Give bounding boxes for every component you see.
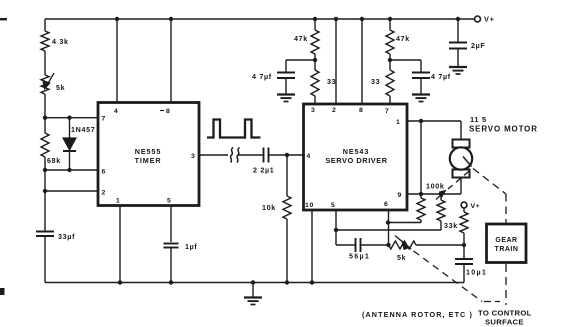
potentiometer 5k [389,236,465,263]
svg-text:47k: 47k [294,35,308,43]
wire NE543 pin1 to motor [407,121,461,140]
resistor 47k right [386,19,410,60]
svg-text:1µf: 1µf [185,243,198,251]
NE555 pin 4 label [114,108,118,115]
NE555 pin 7 label [102,116,106,123]
svg-text:NE555: NE555 [135,147,161,156]
wire NE543 pin 8 to rail [361,19,363,104]
svg-text:3: 3 [191,153,195,160]
wire cap to NE543 pin4 [269,154,304,156]
scan mark left bottom [0,288,5,295]
pulse waveform symbol [207,120,261,138]
capacitor 4.7uF right [412,73,451,95]
terminal V+ mid [461,202,480,210]
svg-text:33: 33 [327,78,336,86]
junction 33k bottom [462,243,466,247]
svg-text:2: 2 [102,190,106,197]
wire left column lower [44,170,46,231]
svg-text:1: 1 [116,198,120,205]
NE555 pin 8 label [160,108,170,115]
junction top rail at pin8 NE543 [360,17,364,21]
junction pin10 bottom rail [310,280,314,284]
NE543 pin 3 label [311,107,315,114]
resistor feedback left [388,121,425,223]
junction pin5 cap bottom rail [169,280,173,284]
junction 10k bottom rail [285,280,289,284]
svg-text:7: 7 [102,116,106,123]
wire NE543 pin9 [407,193,461,195]
svg-text:NE543: NE543 [343,147,369,156]
dashed link gear train to control surface [505,264,507,305]
wire to 4.7uF right [390,60,421,72]
resistor 10k [262,155,291,283]
junction pin1 wire [419,119,423,123]
svg-text:8: 8 [166,108,170,115]
junction node pin4/10k [285,153,289,157]
label antenna rotor [362,310,473,319]
junction diode top [67,116,71,120]
svg-text:100k: 100k [426,183,445,191]
wire squiggle to cap [239,154,264,156]
resistor 4.3k [41,31,69,75]
svg-text:6: 6 [384,201,388,208]
NE543 pin 10 label [305,202,314,209]
junction top rail at 47k left [313,17,317,21]
resistor 33k [444,208,468,245]
resistor 33 right [371,60,394,104]
svg-text:SURFACE: SURFACE [485,318,524,327]
wire left column mid [44,94,46,118]
svg-text:SERVO MOTOR: SERVO MOTOR [469,125,538,134]
wire NE555 pin3 output [199,154,228,156]
ground symbol main [244,283,262,305]
NE543 pin 9 label [398,192,402,199]
ground symbol 2uF [449,67,467,74]
dashed link motor to gear train [473,169,506,223]
wire pin5 node down [335,230,337,245]
svg-text:10k: 10k [262,204,276,212]
wire NE555 pin 4 to rail [116,19,118,103]
NE543 pin 2 label [332,107,336,114]
wire NE555 pin 8 to rail [170,19,172,103]
capacitor 4.7uF left [252,73,295,95]
capacitor 2.2uF coupling [253,148,274,175]
NE543 pin 7 label [385,108,389,115]
svg-text:6: 6 [102,169,106,176]
svg-text:33k: 33k [444,222,458,230]
potentiometer 5k [41,73,65,94]
capacitor 33uF [36,232,75,283]
NE543 pin 6 label [384,201,388,208]
capacitor 56uF [336,238,388,261]
wire top V+ rail [45,18,474,20]
NE555 pin 3 label [191,153,195,160]
svg-text:11 5: 11 5 [470,115,487,124]
junction rail at ground symbol [251,280,255,284]
capacitor 1uF pin5 [164,243,198,283]
svg-text:V+: V+ [471,203,481,210]
wire NE555 pin 5 down [170,206,172,243]
capacitor 2uF [449,19,485,67]
junction left col pin7 node [43,116,47,120]
svg-text:TIMER: TIMER [135,156,162,165]
NE543 pin 5 label [331,202,335,209]
svg-text:V+: V+ [484,15,495,24]
dashed link 100k pot to gear [448,170,471,190]
junction left col pin6 node [43,168,47,172]
NE555 pin 2 label [102,190,106,197]
svg-text:10µ1: 10µ1 [466,269,487,277]
op-amp U1 NE555 timer box [98,103,199,206]
capacitor 10uF [455,245,487,283]
svg-text:1: 1 [396,119,400,126]
svg-text:TRAIN: TRAIN [495,246,519,253]
svg-text:2: 2 [332,107,336,114]
wire NE555 pin 1 to ground rail [119,206,121,283]
junction diode bottom [67,168,71,172]
NE555 pin 5 label [167,198,171,205]
svg-text:56µ1: 56µ1 [349,253,370,261]
svg-text:2 2µ1: 2 2µ1 [253,167,274,175]
wire NE543 pin 2 to rail [335,19,337,104]
svg-text:5k: 5k [397,254,406,262]
wire left column upper [44,19,46,31]
svg-text:5: 5 [167,198,171,205]
resistor 68k [41,118,61,170]
svg-text:4 3k: 4 3k [52,38,69,46]
wire NE543 pin 6 down [388,210,390,245]
wire node C to pin 2 [45,190,98,192]
svg-text:4 7µf: 4 7µf [252,73,272,81]
junction top rail at pin4 NE555 [115,17,119,21]
wire motor bottom to pin9 rail [460,178,462,195]
NE543 pin 4 label [307,153,311,160]
junction pin6 node 245 [386,243,390,247]
svg-text:(ANTENNA ROTOR, ETC ): (ANTENNA ROTOR, ETC ) [362,310,473,319]
cable break squiggle [231,148,240,163]
label servo motor [469,115,538,134]
svg-text:33µf: 33µf [58,233,75,241]
diode 1N457 [63,118,95,170]
svg-text:33: 33 [371,78,380,86]
svg-text:9: 9 [398,192,402,199]
ground symbol 4.7uF right [412,95,430,102]
svg-text:10: 10 [305,202,314,209]
svg-text:TO CONTROL: TO CONTROL [478,309,532,318]
wire node A to pin 7 [45,117,98,119]
junction top rail at 47k right [388,17,392,21]
svg-text:2µF: 2µF [471,42,485,50]
motor M1 servo motor [450,140,472,178]
svg-text:68k: 68k [47,157,61,165]
junction 47k/33 left [313,58,317,62]
NE543 pin 8 label [359,107,363,114]
junction pin9 at R-left [419,192,423,196]
junction pin9 at 100k pot [439,192,443,196]
label to control surface [478,309,532,327]
svg-text:GEAR: GEAR [495,237,517,244]
junction top rail at pin2 NE543 [334,17,338,21]
junction top rail at 2uF [456,17,460,21]
svg-text:4 7µf: 4 7µf [431,73,451,81]
junction 47k/33 right [388,58,392,62]
terminal V+ top [475,15,495,24]
resistor 33 left [311,60,336,104]
resistor 47k left [294,19,319,60]
dashed link 5k pot to control [414,251,501,302]
wire NE543 pin 10 to ground rail [311,210,313,283]
junction top rail at pin8 NE555 [169,17,173,21]
svg-text:5: 5 [331,202,335,209]
gear train box [487,224,527,263]
op-amp U2 NE543 servo driver box [304,104,408,210]
potentiometer 100k [336,191,446,231]
wire to 4.7uF left [286,60,315,72]
svg-text:5k: 5k [56,84,65,92]
svg-text:SERVO DRIVER: SERVO DRIVER [325,156,387,165]
svg-text:8: 8 [359,107,363,114]
wire bottom ground rail [45,282,464,284]
svg-text:4: 4 [114,108,118,115]
svg-text:1N457: 1N457 [71,126,95,134]
svg-text:7: 7 [385,108,389,115]
label 100k [426,183,445,191]
wire NE543 pin 5 down [335,210,337,230]
wire node B to pin 6 [45,169,98,171]
scan mark left top [0,18,7,20]
svg-text:47k: 47k [396,35,410,43]
NE555 pin 6 label [102,169,106,176]
NE543 pin 1 label [396,119,400,126]
junction pin6 at 222 [386,220,390,224]
junction pin1 bottom rail [118,280,122,284]
ground symbol 4.7uF left [277,95,295,102]
NE555 pin 1 label [116,198,120,205]
svg-text:4: 4 [307,153,311,160]
junction left col pin2 node [43,189,47,193]
junction pin5 node [334,228,338,232]
svg-text:3: 3 [311,107,315,114]
